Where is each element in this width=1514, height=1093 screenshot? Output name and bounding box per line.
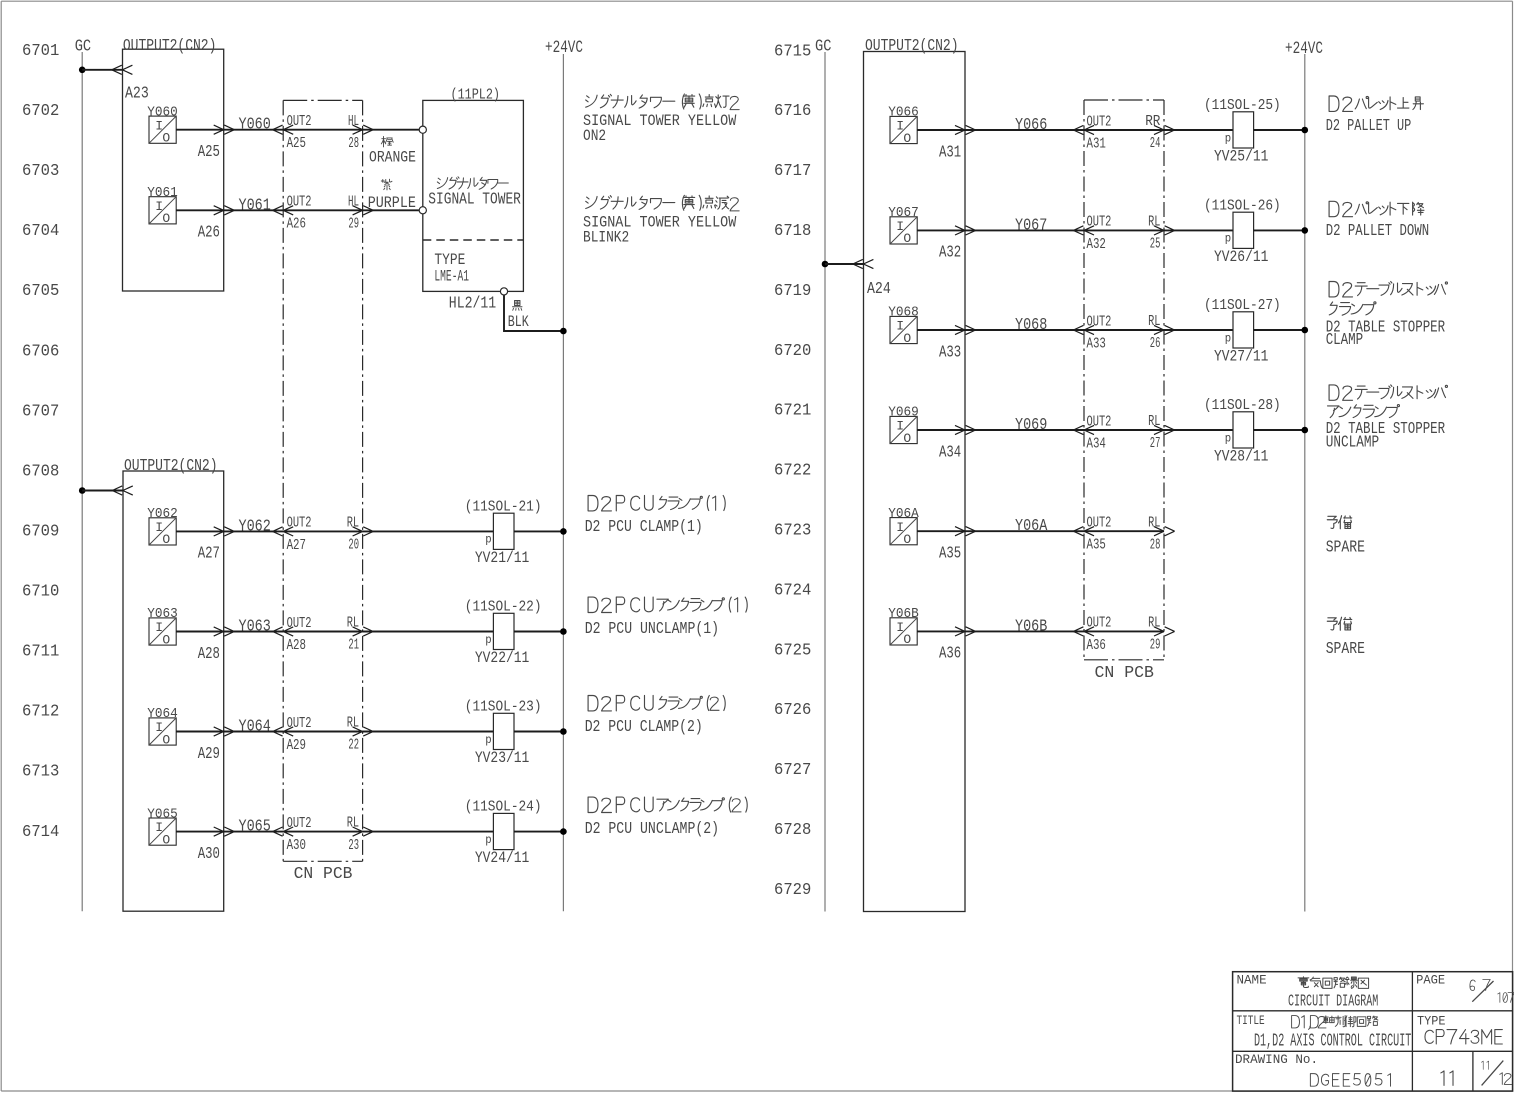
svg-text:OUT2: OUT2 bbox=[287, 815, 312, 832]
svg-text:6707: 6707 bbox=[22, 402, 59, 421]
svg-text:OUT2: OUT2 bbox=[1087, 313, 1112, 330]
svg-text:6709: 6709 bbox=[22, 522, 59, 541]
svg-text:OUT2: OUT2 bbox=[1087, 615, 1112, 632]
svg-text:O: O bbox=[162, 131, 170, 146]
svg-text:A29: A29 bbox=[198, 744, 220, 763]
svg-text:D1,D2 AXIS CONTROL CIRCUIT: D1,D2 AXIS CONTROL CIRCUIT bbox=[1254, 1030, 1411, 1051]
svg-text:p: p bbox=[1225, 331, 1231, 345]
svg-text:A35: A35 bbox=[939, 544, 961, 563]
svg-text:6710: 6710 bbox=[22, 583, 59, 602]
svg-text:BLINK2: BLINK2 bbox=[583, 228, 629, 246]
svg-text:OUT2: OUT2 bbox=[1087, 214, 1112, 231]
svg-text:(11SOL-27): (11SOL-27) bbox=[1204, 296, 1281, 314]
svg-text:Y069: Y069 bbox=[888, 406, 919, 421]
svg-text:Y065: Y065 bbox=[147, 807, 178, 822]
svg-text:6714: 6714 bbox=[22, 823, 59, 842]
svg-text:Y06A: Y06A bbox=[1015, 516, 1047, 535]
svg-text:24: 24 bbox=[1150, 136, 1161, 152]
svg-text:29: 29 bbox=[348, 217, 359, 233]
svg-text:A24: A24 bbox=[867, 279, 891, 298]
svg-text:CLAMP: CLAMP bbox=[1326, 331, 1363, 350]
svg-text:Y061: Y061 bbox=[239, 195, 271, 214]
svg-text:6705: 6705 bbox=[22, 282, 59, 301]
svg-text:O: O bbox=[162, 211, 170, 226]
svg-text:6716: 6716 bbox=[774, 102, 811, 121]
svg-text:6727: 6727 bbox=[774, 761, 811, 780]
svg-text:p: p bbox=[485, 533, 491, 547]
svg-text:Y060: Y060 bbox=[147, 105, 178, 120]
svg-text:A25: A25 bbox=[198, 142, 220, 161]
svg-text:A30: A30 bbox=[287, 837, 306, 854]
svg-text:Y06B: Y06B bbox=[1015, 616, 1047, 635]
svg-text:CIRCUIT DIAGRAM: CIRCUIT DIAGRAM bbox=[1288, 993, 1378, 1012]
svg-text:A28: A28 bbox=[198, 644, 220, 663]
svg-text:CN PCB: CN PCB bbox=[294, 865, 353, 884]
svg-text:GC: GC bbox=[815, 38, 831, 57]
svg-text:A33: A33 bbox=[1087, 335, 1106, 352]
svg-text:Y067: Y067 bbox=[888, 206, 919, 221]
svg-text:YV28/11: YV28/11 bbox=[1214, 448, 1268, 466]
svg-text:BLK: BLK bbox=[508, 313, 530, 331]
svg-text:D2 PALLET DOWN: D2 PALLET DOWN bbox=[1326, 222, 1429, 241]
svg-text:(11PL2): (11PL2) bbox=[451, 87, 501, 103]
svg-text:28: 28 bbox=[348, 136, 359, 152]
svg-text:OUT2: OUT2 bbox=[287, 515, 312, 532]
svg-text:A34: A34 bbox=[939, 442, 961, 461]
svg-text:Y060: Y060 bbox=[239, 115, 271, 134]
svg-text:A28: A28 bbox=[287, 637, 306, 654]
svg-text:6711: 6711 bbox=[22, 643, 59, 662]
svg-text:(11SOL-25): (11SOL-25) bbox=[1204, 96, 1281, 114]
svg-text:Y062: Y062 bbox=[147, 507, 178, 522]
svg-text:p: p bbox=[485, 633, 491, 647]
svg-text:YV24/11: YV24/11 bbox=[475, 849, 529, 867]
svg-text:A25: A25 bbox=[287, 135, 306, 152]
svg-text:OUT2: OUT2 bbox=[1087, 113, 1112, 130]
svg-text:O: O bbox=[903, 431, 911, 446]
svg-text:p: p bbox=[485, 733, 491, 747]
svg-text:Y063: Y063 bbox=[147, 607, 178, 622]
svg-text:Y062: Y062 bbox=[239, 516, 271, 535]
svg-text:A33: A33 bbox=[939, 342, 961, 361]
svg-text:OUTPUT2(CN2): OUTPUT2(CN2) bbox=[865, 37, 959, 55]
svg-text:Y068: Y068 bbox=[888, 306, 919, 321]
svg-text:OUT2: OUT2 bbox=[287, 615, 312, 632]
svg-text:Y065: Y065 bbox=[239, 817, 271, 836]
svg-text:A27: A27 bbox=[287, 537, 306, 554]
svg-text:Y066: Y066 bbox=[1015, 115, 1047, 134]
svg-text:Y064: Y064 bbox=[147, 707, 178, 722]
svg-text:A23: A23 bbox=[125, 83, 149, 102]
svg-text:Y069: Y069 bbox=[1015, 415, 1047, 434]
svg-text:A31: A31 bbox=[1087, 135, 1106, 152]
svg-text:D2 PCU CLAMP(2): D2 PCU CLAMP(2) bbox=[585, 717, 703, 736]
svg-text:DRAWING No.: DRAWING No. bbox=[1235, 1052, 1318, 1067]
svg-text:p: p bbox=[1225, 431, 1231, 445]
svg-text:A32: A32 bbox=[1087, 236, 1106, 253]
svg-text:A36: A36 bbox=[1087, 637, 1106, 654]
svg-text:TYPE: TYPE bbox=[1417, 1013, 1446, 1028]
svg-text:(11SOL-22): (11SOL-22) bbox=[465, 598, 542, 616]
svg-text:NAME: NAME bbox=[1237, 972, 1267, 987]
svg-text:A30: A30 bbox=[198, 844, 220, 863]
svg-text:6712: 6712 bbox=[22, 703, 59, 722]
svg-text:TITLE: TITLE bbox=[1237, 1013, 1265, 1028]
svg-text:23: 23 bbox=[348, 838, 359, 854]
svg-text:6726: 6726 bbox=[774, 701, 811, 720]
svg-text:YV21/11: YV21/11 bbox=[475, 549, 529, 567]
svg-text:A32: A32 bbox=[939, 243, 961, 262]
svg-text:6721: 6721 bbox=[774, 402, 811, 421]
svg-text:A31: A31 bbox=[939, 142, 961, 161]
svg-text:21: 21 bbox=[348, 638, 359, 654]
svg-text:D2 PALLET UP: D2 PALLET UP bbox=[1326, 117, 1412, 136]
svg-text:CN PCB: CN PCB bbox=[1095, 664, 1154, 683]
svg-text:Y06B: Y06B bbox=[888, 607, 919, 622]
svg-text:SPARE: SPARE bbox=[1326, 640, 1365, 659]
svg-text:Y064: Y064 bbox=[239, 717, 271, 736]
svg-text:6723: 6723 bbox=[774, 522, 811, 541]
svg-text:27: 27 bbox=[1150, 436, 1161, 452]
svg-text:GC: GC bbox=[75, 38, 91, 57]
svg-text:p: p bbox=[1225, 131, 1231, 145]
svg-text:A34: A34 bbox=[1087, 435, 1106, 452]
svg-text:D2 PCU CLAMP(1): D2 PCU CLAMP(1) bbox=[585, 517, 703, 536]
svg-text:(11SOL-21): (11SOL-21) bbox=[465, 497, 542, 515]
svg-text:O: O bbox=[162, 732, 170, 747]
svg-text:O: O bbox=[903, 632, 911, 647]
svg-text:O: O bbox=[162, 632, 170, 647]
svg-text:22: 22 bbox=[348, 738, 359, 754]
svg-text:6725: 6725 bbox=[774, 641, 811, 660]
svg-text:Y068: Y068 bbox=[1015, 315, 1047, 334]
svg-text:(11SOL-23): (11SOL-23) bbox=[465, 698, 542, 716]
svg-text:OUT2: OUT2 bbox=[287, 715, 312, 732]
svg-text:p: p bbox=[485, 833, 491, 847]
svg-text:OUT2: OUT2 bbox=[287, 194, 312, 211]
svg-text:LME-A1: LME-A1 bbox=[434, 267, 469, 285]
svg-text:YV23/11: YV23/11 bbox=[475, 749, 529, 767]
svg-text:O: O bbox=[903, 532, 911, 547]
svg-text:Y06A: Y06A bbox=[888, 507, 919, 522]
svg-text:YV26/11: YV26/11 bbox=[1214, 248, 1268, 266]
svg-text:UNCLAMP: UNCLAMP bbox=[1326, 434, 1379, 453]
svg-text:6722: 6722 bbox=[774, 462, 811, 481]
svg-text:28: 28 bbox=[1150, 537, 1161, 553]
svg-text:6717: 6717 bbox=[774, 162, 811, 181]
svg-text:6701: 6701 bbox=[22, 42, 59, 61]
svg-text:(11SOL-26): (11SOL-26) bbox=[1204, 196, 1281, 214]
svg-text:6720: 6720 bbox=[774, 342, 811, 361]
svg-text:6715: 6715 bbox=[774, 42, 811, 61]
svg-text:Y067: Y067 bbox=[1015, 215, 1047, 234]
svg-text:SIGNAL TOWER: SIGNAL TOWER bbox=[428, 190, 521, 209]
svg-text:6708: 6708 bbox=[22, 462, 59, 481]
svg-text:25: 25 bbox=[1150, 237, 1161, 253]
svg-text:YV22/11: YV22/11 bbox=[475, 649, 529, 667]
svg-text:OUT2: OUT2 bbox=[1087, 413, 1112, 430]
svg-text:A26: A26 bbox=[198, 223, 220, 242]
svg-text:Y066: Y066 bbox=[888, 106, 919, 121]
svg-text:YV25/11: YV25/11 bbox=[1214, 148, 1268, 166]
svg-text:O: O bbox=[903, 231, 911, 246]
svg-text:A36: A36 bbox=[939, 644, 961, 663]
svg-text:6713: 6713 bbox=[22, 763, 59, 782]
svg-text:Y061: Y061 bbox=[147, 186, 178, 201]
svg-text:PURPLE: PURPLE bbox=[368, 194, 416, 212]
svg-text:ORANGE: ORANGE bbox=[369, 148, 416, 166]
svg-text:(11SOL-24): (11SOL-24) bbox=[465, 798, 542, 816]
svg-text:26: 26 bbox=[1150, 336, 1161, 352]
svg-text:O: O bbox=[162, 832, 170, 847]
svg-text:A26: A26 bbox=[287, 216, 306, 233]
svg-text:O: O bbox=[903, 131, 911, 146]
svg-text:OUTPUT2(CN2): OUTPUT2(CN2) bbox=[124, 457, 218, 475]
svg-text:6728: 6728 bbox=[774, 821, 811, 840]
svg-text:PAGE: PAGE bbox=[1416, 972, 1445, 987]
svg-text:6702: 6702 bbox=[22, 102, 59, 121]
svg-text:+24VC: +24VC bbox=[545, 38, 583, 58]
svg-text:OUTPUT2(CN2): OUTPUT2(CN2) bbox=[123, 37, 216, 55]
svg-text:O: O bbox=[903, 331, 911, 346]
svg-text:D2 PCU UNCLAMP(2): D2 PCU UNCLAMP(2) bbox=[585, 819, 719, 838]
svg-text:(11SOL-28): (11SOL-28) bbox=[1204, 396, 1281, 414]
svg-text:HL2/11: HL2/11 bbox=[449, 293, 496, 312]
svg-text:29: 29 bbox=[1150, 638, 1161, 654]
svg-text:Y063: Y063 bbox=[239, 617, 271, 636]
svg-text:OUT2: OUT2 bbox=[287, 113, 312, 130]
svg-text:SPARE: SPARE bbox=[1326, 538, 1365, 557]
svg-text:6718: 6718 bbox=[774, 222, 811, 241]
svg-text:6703: 6703 bbox=[22, 162, 59, 181]
svg-text:+24VC: +24VC bbox=[1285, 39, 1323, 59]
svg-text:20: 20 bbox=[348, 538, 359, 554]
svg-text:OUT2: OUT2 bbox=[1087, 515, 1112, 532]
svg-text:6729: 6729 bbox=[774, 881, 811, 900]
svg-text:YV27/11: YV27/11 bbox=[1214, 348, 1268, 366]
svg-text:A27: A27 bbox=[198, 544, 220, 563]
svg-text:A29: A29 bbox=[287, 737, 306, 754]
svg-text:6719: 6719 bbox=[774, 282, 811, 301]
svg-text:D2 PCU UNCLAMP(1): D2 PCU UNCLAMP(1) bbox=[585, 619, 719, 638]
svg-text:O: O bbox=[162, 532, 170, 547]
svg-text:6704: 6704 bbox=[22, 222, 59, 241]
svg-text:6706: 6706 bbox=[22, 342, 59, 361]
svg-text:p: p bbox=[1225, 232, 1231, 246]
svg-text:6724: 6724 bbox=[774, 581, 811, 600]
svg-text:A35: A35 bbox=[1087, 537, 1106, 554]
svg-text:ON2: ON2 bbox=[583, 127, 606, 145]
